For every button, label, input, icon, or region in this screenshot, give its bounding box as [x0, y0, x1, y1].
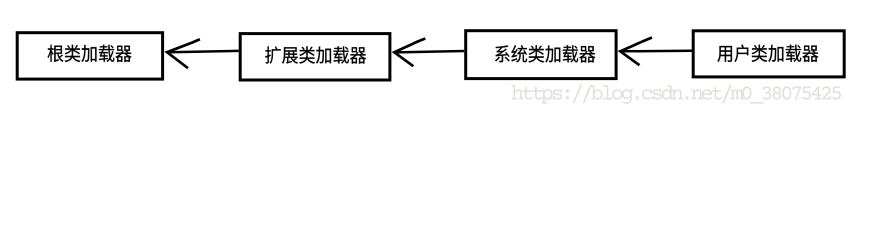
- arrow box4->box3 arrowhead: [620, 38, 652, 66]
- box2 扩展类加载器: [240, 34, 390, 80]
- label 系统类加载器 (system class loader): [495, 45, 595, 62]
- label 用户类加载器 (user class loader): [717, 45, 818, 62]
- arrow box2->box1 shaft (wire): [169, 51, 239, 52]
- arrow box4->box3 shaft (wire): [622, 49, 692, 52]
- box3 系统类加载器: [466, 31, 616, 79]
- box1 根类加载器: [17, 33, 162, 79]
- label 扩展类加载器 (extension class loader): [265, 46, 366, 63]
- label 根类加载器 (root class loader): [48, 45, 132, 62]
- arrow box3->box2 shaft (wire): [396, 51, 464, 52]
- arrow box2->box1 arrowhead: [167, 39, 200, 68]
- box4 用户类加载器: [693, 31, 844, 77]
- watermark text: blog.csdn.net m0_38075425: [512, 84, 841, 103]
- arrow box3->box2 arrowhead: [394, 39, 425, 67]
